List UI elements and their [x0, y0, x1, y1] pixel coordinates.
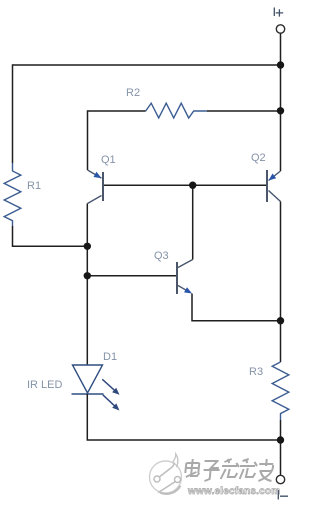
node: Q2 collector / R3 top junction — [277, 317, 284, 324]
wire: Q3 base wire — [87, 275, 176, 277]
resistor R3 — [272, 362, 289, 420]
svg-text:IR LED: IR LED — [27, 379, 63, 391]
label I- — [278, 490, 288, 500]
node: bottom rail / R3 junction — [277, 436, 284, 443]
resistor R2 — [146, 103, 207, 118]
wire: LED cathode down and bottom rail — [87, 394, 280, 440]
wire: R3 bottom lead — [280, 420, 282, 440]
svg-text:R2: R2 — [126, 87, 140, 99]
LED emission arrow 1 — [102, 379, 119, 395]
svg-text:Q2: Q2 — [251, 152, 266, 164]
wire: R1 bottom to left branch — [13, 226, 88, 246]
label I+ — [274, 8, 283, 17]
wire: Q3 emitter down and right to R3 node — [192, 294, 281, 321]
wire: left rail down to R1 — [12, 64, 14, 163]
transistor Q3 — [177, 260, 193, 295]
wire: R2 left lead from corner above Q1 — [88, 111, 146, 170]
wire: Q3 collector up to base node — [192, 185, 194, 259]
transistor Q1 — [88, 170, 104, 204]
diode D1 (IR LED) — [72, 365, 104, 394]
terminal I- — [276, 475, 284, 483]
watermark text 电子发烧友 (stylized strokes) — [184, 459, 273, 481]
svg-text:R3: R3 — [249, 366, 263, 378]
node: R2 right junction — [277, 107, 284, 114]
terminal I+ — [276, 25, 284, 33]
svg-text:Q1: Q1 — [101, 154, 116, 166]
wire: Q2 collector down to R3 node — [280, 202, 282, 321]
wire: R2 right lead to right rail — [207, 110, 281, 112]
node: R1 / Q1 collector junction — [84, 243, 91, 250]
wire: R3 top lead — [280, 321, 282, 362]
wire: Q1 collector down to node — [86, 204, 88, 247]
wire: top rail — [13, 64, 281, 66]
wire: right rail from I+ terminal down to Q2 emitter — [280, 33, 282, 171]
transistor Q2 — [267, 170, 281, 202]
wire: left branch between nodes — [86, 246, 88, 365]
wire: Q1 base to Q2 base — [104, 184, 266, 186]
resistor R1 — [4, 163, 21, 226]
wire: bottom rail to I- terminal — [280, 440, 282, 475]
svg-text:Q3: Q3 — [154, 250, 169, 262]
watermark logo — [150, 454, 182, 494]
node: Q3 base junction — [84, 272, 91, 279]
svg-text:www.elecfans.com: www.elecfans.com — [187, 486, 280, 497]
svg-text:R1: R1 — [27, 180, 41, 192]
node: Q3 collector / base wire junction — [189, 182, 196, 189]
LED emission arrow 2 — [103, 395, 120, 411]
node: top rail / right rail junction — [277, 61, 284, 68]
svg-text:D1: D1 — [103, 351, 117, 363]
